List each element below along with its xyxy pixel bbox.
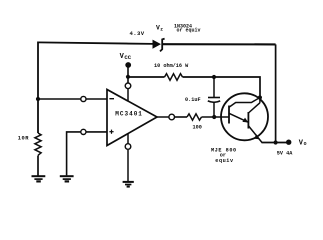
svg-text:100: 100: [193, 125, 202, 131]
svg-text:equiv: equiv: [215, 158, 234, 164]
resistor R1 10R vertical zigzag: [35, 133, 41, 155]
wire: from R1 to ground: [37, 156, 39, 176]
svg-text:z: z: [160, 27, 163, 32]
op-amp U1 triangle: [107, 90, 157, 146]
transistor Q1b collector: [248, 103, 260, 113]
transistor Q1 MJE800 circle: [221, 93, 268, 140]
svg-text:O: O: [304, 141, 307, 147]
wire: inverting input wire from ground riser: [67, 132, 108, 176]
node: junction rail/capacitor: [212, 75, 216, 79]
pin circle: op-amp V+ pin: [125, 83, 131, 89]
wire: non-inv input wire: [38, 98, 108, 100]
wire: collector rail from VCC junction: [128, 76, 165, 78]
wire: V+ pin into triangle: [127, 89, 129, 102]
wire: top rail from zener cathode to right corner: [163, 43, 276, 45]
ground G2: [60, 176, 74, 181]
svg-text:4.3V: 4.3V: [130, 30, 145, 37]
wire: left riser: [37, 42, 39, 134]
capacitor C1 0.1uF: [213, 77, 215, 97]
svg-text:10R: 10R: [18, 135, 29, 141]
transistor Q1b base bar: [247, 112, 249, 129]
node A: junction on left riser to op-amp input: [36, 97, 40, 101]
svg-text:or equiv: or equiv: [177, 28, 201, 34]
pin circle: op-amp output: [169, 114, 175, 120]
wire: rail from R2 to corner: [183, 77, 261, 98]
ground G1: [32, 176, 46, 181]
resistor R2 10 ohm zigzag: [165, 74, 183, 81]
node: collector junction: [258, 95, 262, 99]
svg-text:CC: CC: [124, 54, 131, 61]
wire: op-amp ground pin: [127, 134, 129, 144]
wire: VCC drop to op-amp power pin: [127, 65, 129, 83]
svg-text:0.1uF: 0.1uF: [185, 97, 201, 103]
transistor Q1a collector path: [229, 98, 260, 108]
wire: gnd pin to ground: [127, 150, 129, 182]
transistor Q1a emitter with arrow: [229, 113, 248, 122]
transistor Q1a base bar: [228, 106, 230, 124]
zener diode D1 anode triangle: [153, 40, 162, 49]
svg-text:MC3401: MC3401: [115, 111, 143, 118]
label plus input: [109, 130, 113, 134]
svg-text:5V 4A: 5V 4A: [277, 150, 293, 156]
wire: output rail: [262, 142, 289, 144]
svg-text:10 ohm/16 W: 10 ohm/16 W: [154, 63, 189, 69]
terminal dot VCC: [125, 62, 131, 68]
ground G3: [123, 182, 134, 187]
node: junction capacitor/base wire: [212, 115, 216, 119]
pin circle: op-amp gnd pin: [125, 144, 131, 150]
transistor Q1b emitter with arrow: [249, 126, 262, 143]
wire: right riser down to output node: [275, 44, 277, 142]
pin circle: input 2: [81, 129, 86, 134]
zener diode D1 cathode bar: [160, 39, 165, 52]
node: junction VCC / 10 ohm rail: [126, 75, 130, 79]
wire: output to R3: [157, 116, 169, 118]
pin circle: input 1: [81, 96, 86, 101]
wire: top rail from left riser to zener anode: [38, 42, 153, 44]
terminal dot Vo: [286, 140, 291, 145]
resistor R3 100 zigzag: [187, 114, 202, 120]
wire: R3 to transistor base: [202, 116, 230, 118]
node: junction right riser/output: [274, 140, 278, 144]
label minus input: [109, 98, 114, 100]
wire: feed into Q2 collector: [259, 98, 261, 103]
